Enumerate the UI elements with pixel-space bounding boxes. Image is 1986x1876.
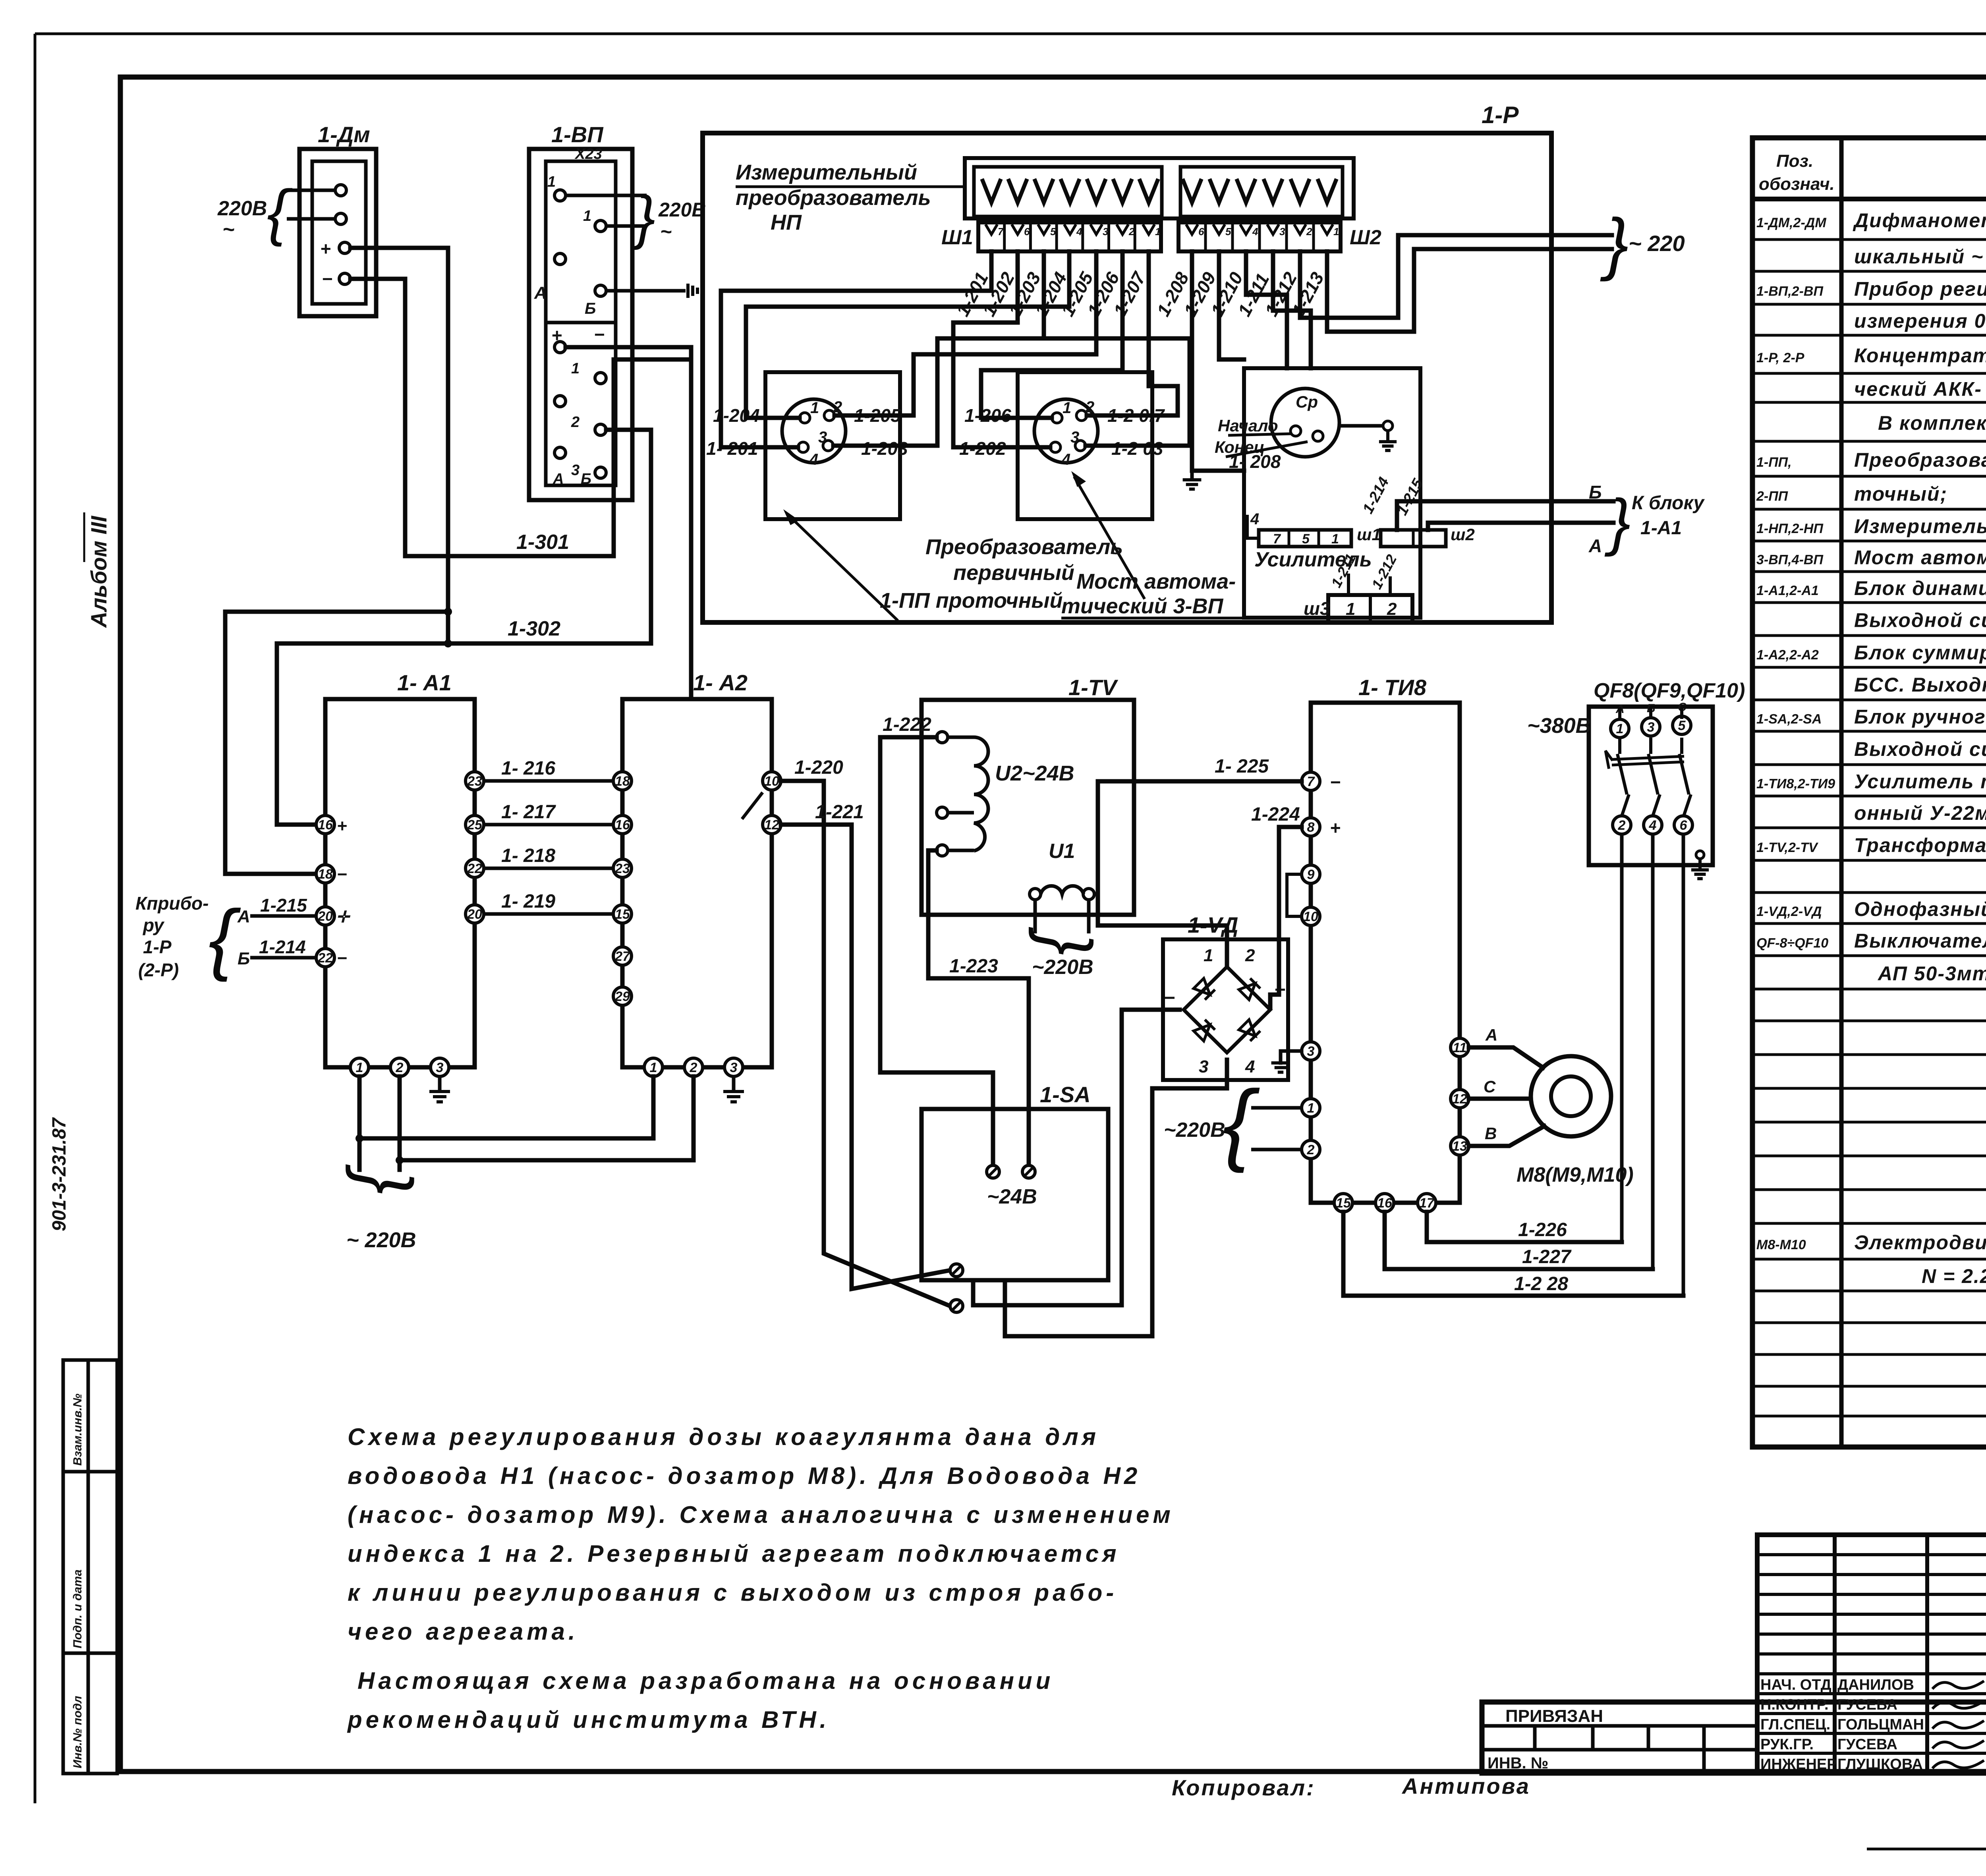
callout line to connector 1 <box>788 515 897 620</box>
svg-text:220В: 220В <box>658 199 706 221</box>
svg-text:Копировал:: Копировал: <box>1172 1775 1316 1800</box>
net 1-223 <box>928 850 1029 1163</box>
svg-text:А: А <box>1588 535 1602 556</box>
switch stroke inside 1-А2 <box>742 792 763 819</box>
svg-text:20: 20 <box>467 907 482 922</box>
terminal ТИ8 16 <box>1376 1194 1394 1212</box>
svg-text:22: 22 <box>467 861 482 876</box>
svg-text:8: 8 <box>1307 820 1315 835</box>
terminal 1-А1 bottom 2 <box>390 1058 409 1076</box>
svg-text:+: + <box>337 816 347 836</box>
terminal 1-А2 bottom 2 <box>684 1058 703 1076</box>
svg-text:Б: Б <box>238 949 250 968</box>
svg-text:Блок ручного управления БРУ: Блок ручного управления БРУ-22 <box>1854 706 1986 728</box>
svg-text:15: 15 <box>615 907 630 922</box>
svg-text:18: 18 <box>318 867 333 882</box>
svg-text:2: 2 <box>1128 226 1135 238</box>
svg-text:−: − <box>337 949 347 968</box>
svg-text:4: 4 <box>1076 226 1082 238</box>
signature grid <box>1757 1535 1986 1773</box>
svg-text:U1: U1 <box>1049 840 1075 863</box>
net А exit from ш2 <box>1428 523 1613 530</box>
wire 1-ВП pin1 to 220V <box>566 194 647 197</box>
svg-text:5: 5 <box>1225 226 1231 238</box>
wire 1-220 to 1-SА <box>781 781 950 1306</box>
wire 1-Дм 220V feeds <box>287 189 335 192</box>
wires U1 down to 220V brace <box>1034 900 1037 933</box>
svg-text:к линии регулирования с в: к линии регулирования с выходом из строя… <box>348 1579 1117 1606</box>
svg-text:1: 1 <box>1307 1101 1315 1116</box>
svg-text:1-ПП,: 1-ПП, <box>1756 455 1792 470</box>
terminal ТИ8 7 <box>1302 772 1320 790</box>
svg-text:1-220: 1-220 <box>794 757 843 778</box>
svg-text:1-ТV,2-ТV: 1-ТV,2-ТV <box>1756 840 1819 855</box>
svg-text:1: 1 <box>810 399 819 417</box>
svg-text:5: 5 <box>1302 531 1310 547</box>
svg-text:Поз.: Поз. <box>1776 151 1813 171</box>
svg-text:~: ~ <box>660 220 672 243</box>
svg-text:измерения 0-5мА. РЛ-160- 09: измерения 0-5мА. РЛ-160- 09 <box>1854 310 1986 332</box>
svg-text:10: 10 <box>1303 909 1318 924</box>
svg-text:водовода Н1 (насос- дозатор М: водовода Н1 (насос- дозатор М8). Для Вод… <box>348 1463 1141 1489</box>
svg-text:А: А <box>1485 1026 1497 1044</box>
title block outer <box>1482 1702 1986 1773</box>
svg-text:3: 3 <box>571 462 580 479</box>
wire 1-219 <box>484 912 613 916</box>
terminal 1-А2 16 <box>613 815 632 834</box>
chevron row box 1 <box>974 167 1162 216</box>
connector strip Ш2 <box>1178 222 1341 251</box>
terminal 1-А1 18 <box>316 865 334 883</box>
svg-text:Дифманометр мембранный бес-: Дифманометр мембранный бес- <box>1853 209 1986 232</box>
terminal ТИ8 9 <box>1302 865 1320 883</box>
svg-text:рекомендаций института ВТН: рекомендаций института ВТН. <box>347 1706 830 1733</box>
terminal 1-А1 bottom 1 <box>350 1058 369 1076</box>
svg-text:1-А2,2-А2: 1-А2,2-А2 <box>1756 647 1819 663</box>
svg-text:1: 1 <box>650 1060 657 1075</box>
terminal ТИ8 12 <box>1451 1090 1469 1108</box>
junction on 1-302 <box>444 640 452 647</box>
stubs into ш3 <box>1347 575 1350 595</box>
svg-text:С: С <box>1484 1077 1496 1096</box>
connector 1 circle <box>782 399 846 463</box>
svg-text:1-221: 1-221 <box>815 802 864 823</box>
QF8 terminal 4 <box>1644 816 1662 834</box>
svg-text:4: 4 <box>809 451 818 468</box>
device 1-ТИ8 (thyristor amplifier У-22м) <box>1311 703 1460 1203</box>
net Б exit from ш2 <box>1397 501 1613 530</box>
callout line to connector 2 <box>1075 478 1144 598</box>
wire QF8-6 down <box>1682 834 1685 1296</box>
breaker QF8 (QF9,QF10) <box>1589 707 1713 865</box>
svg-text:17: 17 <box>1419 1196 1435 1211</box>
wire 1-221 to 1-SА <box>781 825 950 1289</box>
wire QF8-4 down <box>1651 834 1655 1269</box>
svg-text:ш2: ш2 <box>1451 525 1475 544</box>
wires 220V supply to 1-А1/1-А2 <box>357 1076 362 1170</box>
svg-text:−: − <box>1330 772 1341 792</box>
wire to 1-А1 via x567 <box>225 612 448 874</box>
Ср connector circle <box>1271 388 1339 457</box>
svg-text:Трансформатор однофазный: Трансформатор однофазный <box>1854 834 1986 856</box>
svg-text:4: 4 <box>1250 510 1259 528</box>
svg-text:4: 4 <box>1061 451 1070 468</box>
net 1-Дм minus 1-301 <box>350 279 691 556</box>
svg-text:Кприбо-: Кприбо- <box>135 893 209 914</box>
svg-text:4: 4 <box>1649 818 1657 833</box>
svg-text:−: − <box>322 269 332 289</box>
label ~220В brace bottom left <box>333 1164 415 1194</box>
svg-text:Концентратомер кондуктометри-: Концентратомер кондуктометри- <box>1854 344 1986 367</box>
svg-text:1-227: 1-227 <box>1522 1246 1572 1267</box>
bridge diamond <box>1184 967 1270 1053</box>
svg-text:ру: ру <box>142 915 165 935</box>
terminal 1-Дм pin a <box>335 185 346 196</box>
svg-text:1- 225: 1- 225 <box>1215 756 1269 777</box>
svg-text:1-226: 1-226 <box>1518 1219 1567 1240</box>
outer page border <box>35 33 1986 35</box>
svg-text:3: 3 <box>818 429 827 446</box>
terminal ТИ8 10 <box>1302 907 1320 925</box>
svg-text:ческий АКК- 201- 01: ческий АКК- 201- 01 <box>1854 378 1986 400</box>
svg-text:Блок динамической связи БДС: Блок динамической связи БДС <box>1854 577 1986 599</box>
svg-text:16: 16 <box>318 817 333 833</box>
svg-text:Мост автома-: Мост автома- <box>1076 570 1236 593</box>
svg-text:2: 2 <box>1307 1142 1315 1157</box>
svg-text:Начало: Начало <box>1218 416 1278 435</box>
wire QF8-2 down <box>1620 834 1624 1242</box>
wire 1-218 <box>484 867 613 870</box>
svg-text:1: 1 <box>571 360 580 377</box>
svg-text:НАЧ. ОТД: НАЧ. ОТД <box>1760 1677 1831 1693</box>
svg-text:Электродвигатель 4А 9024: Электродвигатель 4А 9024 <box>1854 1231 1986 1254</box>
svg-text:1-224: 1-224 <box>1251 804 1300 825</box>
measuring transducer bus box <box>965 158 1354 218</box>
svg-text:1-203: 1-203 <box>861 438 908 459</box>
terminal ТИ8 8 <box>1302 818 1320 836</box>
terminal 1-ВП r2c2 <box>595 220 606 232</box>
terminal 1-А2 27 <box>613 947 632 965</box>
svg-text:1-Р, 2-Р: 1-Р, 2-Р <box>1756 350 1804 365</box>
svg-text:3: 3 <box>1070 429 1079 446</box>
svg-text:А: А <box>534 283 547 303</box>
device 1-А1 (dynamic link unit БДС) <box>325 699 475 1067</box>
net 1-210 <box>1246 251 1287 368</box>
terminal 1-А1 bottom 3 <box>431 1058 449 1076</box>
wrap wire A to 1-VД minus <box>973 1010 1180 1305</box>
terminal ⌀ left a <box>950 1264 963 1277</box>
svg-text:Усилитель тиристорный трехпо: Усилитель тиристорный трехпозици- <box>1854 771 1986 793</box>
junction <box>444 608 452 616</box>
terminal ТИ8 17 <box>1418 1194 1436 1212</box>
svg-text:23: 23 <box>467 774 482 789</box>
jumper 9-10 <box>1287 874 1302 916</box>
svg-text:шкальный ~ 220В. Д МЭР-М: шкальный ~ 220В. Д МЭР-М <box>1854 245 1986 268</box>
wire Ср to ground <box>1339 424 1383 428</box>
svg-text:Прибор регистрирующий, преде: Прибор регистрирующий, предел <box>1854 278 1986 300</box>
svg-text:М8(М9,М10): М8(М9,М10) <box>1517 1163 1634 1186</box>
terminal 1-А1 25 <box>466 815 484 834</box>
terminal 1-А1 20 <box>316 907 334 925</box>
ground under 1-А2 pin3 <box>732 1076 736 1092</box>
svg-text:Однофазный мост КЦ- 402F: Однофазный мост КЦ- 402F <box>1854 898 1986 920</box>
svg-text:~220В: ~220В <box>1032 956 1093 979</box>
svg-text:чего агрегата.: чего агрегата. <box>348 1618 579 1645</box>
svg-text:1-ВП: 1-ВП <box>551 122 604 147</box>
device 1-VД (rectifier bridge КЦ-402F) <box>1163 939 1288 1080</box>
svg-text:11: 11 <box>1453 1040 1466 1055</box>
svg-text:1-ТИ8,2-ТИ9: 1-ТИ8,2-ТИ9 <box>1756 777 1835 792</box>
QF8 ground terminal <box>1696 851 1704 859</box>
svg-text:1: 1 <box>356 1060 363 1075</box>
net 1-222 <box>880 737 993 1163</box>
device 1-А2 (summation unit БСС) <box>622 699 772 1067</box>
svg-text:10: 10 <box>764 774 779 789</box>
terminal 1-А1 20r <box>466 905 484 923</box>
net 1-209 into bridge box <box>1219 251 1244 359</box>
svg-text:3: 3 <box>436 1060 444 1075</box>
svg-text:2: 2 <box>833 398 842 416</box>
svg-text:1-ПП проточный: 1-ПП проточный <box>880 589 1063 612</box>
svg-text:29: 29 <box>614 989 630 1004</box>
svg-text:1-2 28: 1-2 28 <box>1514 1273 1568 1294</box>
wrap wire B to 1-VД bottom <box>1005 1060 1227 1336</box>
svg-text:1-Р: 1-Р <box>143 937 172 957</box>
svg-text:1: 1 <box>1331 531 1339 547</box>
wire 11 to motor <box>1469 1047 1543 1068</box>
svg-text:1: 1 <box>547 174 556 190</box>
svg-text:6: 6 <box>1198 226 1204 238</box>
svg-text:23: 23 <box>614 861 630 876</box>
terminal ⌀ left b <box>950 1300 963 1312</box>
привязан box <box>1482 1700 1757 1704</box>
wire 1-216 <box>484 779 613 783</box>
svg-text:А: А <box>237 907 250 926</box>
svg-text:QF8(QF9,QF10): QF8(QF9,QF10) <box>1594 679 1745 702</box>
svg-text:1-302: 1-302 <box>508 617 560 640</box>
svg-text:1-223: 1-223 <box>949 956 998 977</box>
terminal ⌀ supply b <box>1022 1165 1035 1178</box>
svg-text:1-ДМ,2-ДМ: 1-ДМ,2-ДМ <box>1756 215 1826 230</box>
terminal ТИ8 15 <box>1334 1194 1352 1212</box>
svg-text:1-Дм: 1-Дм <box>318 122 370 147</box>
svg-text:Подп. и дата: Подп. и дата <box>71 1569 84 1648</box>
svg-text:18: 18 <box>615 774 630 789</box>
QF8 terminal 6 <box>1674 816 1692 834</box>
terminal 1-А2 18 <box>613 772 632 790</box>
svg-text:1- А2: 1- А2 <box>693 670 748 695</box>
svg-text:U2~24В: U2~24В <box>995 761 1074 785</box>
wire 1-217 <box>484 823 613 827</box>
terminal 1-Дм plus <box>339 242 350 253</box>
net 1-Дм plus to 1-302 trunk <box>350 248 448 643</box>
svg-text:ИНЖЕНЕР: ИНЖЕНЕР <box>1760 1756 1837 1773</box>
secondary coil U1 <box>1030 889 1041 900</box>
svg-text:1-А1: 1-А1 <box>1640 518 1682 539</box>
net 1-211 <box>1273 251 1311 368</box>
svg-text:~ 220В: ~ 220В <box>346 1228 416 1252</box>
svg-text:2: 2 <box>1618 818 1626 833</box>
svg-text:1- 217: 1- 217 <box>501 802 556 823</box>
svg-text:А: А <box>553 471 564 487</box>
divider line in 1-ВП <box>546 321 616 325</box>
svg-text:12: 12 <box>764 817 779 833</box>
svg-text:Б: Б <box>585 300 596 317</box>
svg-text:БСС. Выходной сигнал 0-5мА ~2: БСС. Выходной сигнал 0-5мА ~220В <box>1854 674 1986 696</box>
wire net 1-207 <box>1087 251 1178 415</box>
wire net 1-204 <box>746 251 1069 418</box>
svg-text:16: 16 <box>615 817 630 833</box>
svg-text:Измерительный: Измерительный <box>736 160 917 184</box>
terminal 1-А2 23 <box>613 859 632 877</box>
wire net 1-203 double entry <box>833 251 1044 446</box>
svg-text:−: − <box>337 865 347 884</box>
svg-text:ДАНИЛОВ: ДАНИЛОВ <box>1837 1677 1914 1693</box>
svg-text:1-SА,2-SА: 1-SА,2-SА <box>1756 712 1822 727</box>
svg-text:3: 3 <box>1647 720 1655 735</box>
wire 12 to motor <box>1469 1097 1531 1101</box>
terminal 1-А2 10 <box>763 772 781 790</box>
wire net 1-206 <box>981 251 1122 418</box>
svg-text:Настоящая схема разработана: Настоящая схема разработана на основании <box>357 1667 1054 1694</box>
amplifier strip ш2 <box>1381 530 1446 547</box>
terminal 1-ВП r3c1 <box>554 253 566 265</box>
svg-text:1-А1,2-А1: 1-А1,2-А1 <box>1756 583 1819 598</box>
terminal 1-А2 29 <box>613 987 632 1005</box>
QF8 terminal 2 <box>1613 816 1631 834</box>
svg-text:16: 16 <box>1377 1196 1393 1211</box>
svg-text:Б: Б <box>581 471 591 487</box>
net 1-228 <box>1343 1212 1683 1296</box>
diode on edge 4 <box>1239 1020 1260 1041</box>
connector strip ш3 <box>1328 595 1412 622</box>
svg-text:2: 2 <box>1306 226 1312 238</box>
connector 2 pins <box>1052 413 1062 423</box>
connector 2 circle <box>1034 399 1098 463</box>
net 1-213 to 220 exit <box>1327 249 1612 332</box>
net 1-227 <box>1385 1212 1653 1269</box>
svg-text:~ 220: ~ 220 <box>1629 231 1685 256</box>
svg-text:обознач.: обознач. <box>1759 174 1835 194</box>
svg-text:Н.КОНТР.: Н.КОНТР. <box>1760 1696 1829 1713</box>
svg-text:2: 2 <box>571 414 580 431</box>
svg-text:Измерительный преобразователь: Измерительный преобразователь; <box>1854 515 1986 537</box>
primary transducer connector box 2 <box>1018 372 1152 519</box>
svg-text:−: − <box>594 324 605 345</box>
amplifier strip ш1 <box>1259 530 1351 547</box>
svg-text:2: 2 <box>1245 946 1255 965</box>
svg-text:1-206: 1-206 <box>964 405 1011 426</box>
svg-text:В: В <box>1485 1124 1497 1143</box>
svg-text:Преобразователь первичный пр: Преобразователь первичный про- <box>1854 449 1986 471</box>
terminal 1-ВП r1c1 <box>554 190 566 201</box>
svg-text:1- 219: 1- 219 <box>501 891 555 912</box>
terminal 1-А1 22r <box>466 859 484 877</box>
terminal 1-А2 bottom 1 <box>644 1058 663 1076</box>
svg-text:12: 12 <box>1452 1092 1467 1107</box>
svg-text:6: 6 <box>1024 226 1030 238</box>
terminal ⌀ supply a <box>987 1165 999 1178</box>
svg-text:~380В: ~380В <box>1527 714 1591 738</box>
svg-text:2: 2 <box>1085 398 1094 416</box>
device 1-Р (conductometric concentrator) <box>703 133 1551 622</box>
net 1-225 to bridge top <box>1098 781 1302 965</box>
svg-text:5: 5 <box>1678 718 1686 733</box>
svg-text:22: 22 <box>317 951 333 966</box>
svg-text:НП: НП <box>771 211 802 234</box>
connector 1 pins <box>800 413 810 423</box>
svg-text:Антипова: Антипова <box>1401 1774 1530 1799</box>
QF8 terminal 1 <box>1611 719 1629 738</box>
ground under 1-А1 pin3 <box>438 1076 442 1092</box>
svg-text:индекса 1 на 2. Резервный: индекса 1 на 2. Резервный агрегат подклю… <box>348 1540 1120 1567</box>
svg-text:N = 2.2квт ~380В: N = 2.2квт ~380В <box>1922 1265 1986 1287</box>
svg-text:(насос- дозатор М9). Схема ан: (насос- дозатор М9). Схема аналогична с … <box>348 1501 1174 1528</box>
chevron row box 2 <box>1180 167 1343 216</box>
svg-text:преобразователь: преобразователь <box>736 186 931 210</box>
net 1-208 with ground <box>1192 251 1244 471</box>
net 1-302 from 1-ВП pin2 <box>277 430 651 825</box>
svg-text:АП 50-3мт Iрн = 6.4А ~380: АП 50-3мт Iрн = 6.4А ~380В <box>1877 962 1986 985</box>
terminal 1-А2 12 <box>763 815 781 834</box>
svg-text:1- ТИ8: 1- ТИ8 <box>1358 675 1427 700</box>
svg-text:✛: ✛ <box>336 908 351 926</box>
svg-text:Инв.№ подл: Инв.№ подл <box>71 1696 84 1768</box>
svg-text:2-ПП: 2-ПП <box>1756 489 1789 504</box>
svg-text:1-VД,2-VД: 1-VД,2-VД <box>1756 904 1822 919</box>
svg-text:7: 7 <box>1273 531 1281 547</box>
svg-text:1: 1 <box>1155 226 1161 238</box>
svg-text:+: + <box>1330 817 1341 838</box>
svg-text:3: 3 <box>730 1060 738 1075</box>
svg-text:QF-8÷QF10: QF-8÷QF10 <box>1756 936 1828 951</box>
device 1-ТV (transformer) <box>922 700 1134 915</box>
svg-text:онный У-22м: онный У-22м <box>1854 802 1986 824</box>
QF8 switch mechanism <box>1618 707 1621 719</box>
diode on edge 1 <box>1194 978 1215 1000</box>
svg-text:27: 27 <box>614 949 631 964</box>
parts list table <box>1752 138 1986 1447</box>
svg-text:1-215: 1-215 <box>260 895 307 916</box>
svg-text:1-ВП,2-ВП: 1-ВП,2-ВП <box>1756 284 1824 299</box>
svg-text:ГЛУШКОВА: ГЛУШКОВА <box>1837 1756 1923 1773</box>
wire net 1-205 <box>835 251 1096 415</box>
svg-text:~: ~ <box>222 218 234 241</box>
svg-text:В комплекте:: В комплекте: <box>1878 412 1986 434</box>
svg-text:Выходной сигнал 0-5мА ~ 24: Выходной сигнал 0-5мА ~ 24В <box>1854 738 1986 760</box>
svg-text:1: 1 <box>1616 721 1624 736</box>
svg-text:−: − <box>1164 987 1175 1009</box>
net 1-224 to bridge plus <box>1270 827 1302 1008</box>
svg-text:1: 1 <box>1333 226 1339 238</box>
svg-text:7: 7 <box>1307 774 1316 789</box>
svg-text:ш3: ш3 <box>1304 598 1330 619</box>
terminal 1-Дм pin b <box>335 213 346 224</box>
terminal ТИ8 11 <box>1451 1038 1469 1057</box>
svg-text:15: 15 <box>1336 1196 1351 1211</box>
QF8 terminal 5 <box>1673 716 1691 734</box>
diode on edge 2 <box>1239 978 1260 1000</box>
svg-text:Ср: Ср <box>1296 392 1318 411</box>
svg-text:1- А1: 1- А1 <box>397 670 452 695</box>
svg-text:220В: 220В <box>217 197 267 220</box>
svg-text:ГЛ.СПЕЦ.: ГЛ.СПЕЦ. <box>1760 1716 1830 1733</box>
svg-text:6: 6 <box>1680 818 1688 833</box>
svg-text:ИНВ. №: ИНВ. № <box>1488 1754 1548 1772</box>
terminal 1-ВП lower 3 <box>554 447 566 458</box>
terminal ТИ8 2 <box>1302 1140 1320 1159</box>
svg-text:Выходной сигнал 0-5мА ~ 220: Выходной сигнал 0-5мА ~ 220В <box>1854 609 1986 632</box>
